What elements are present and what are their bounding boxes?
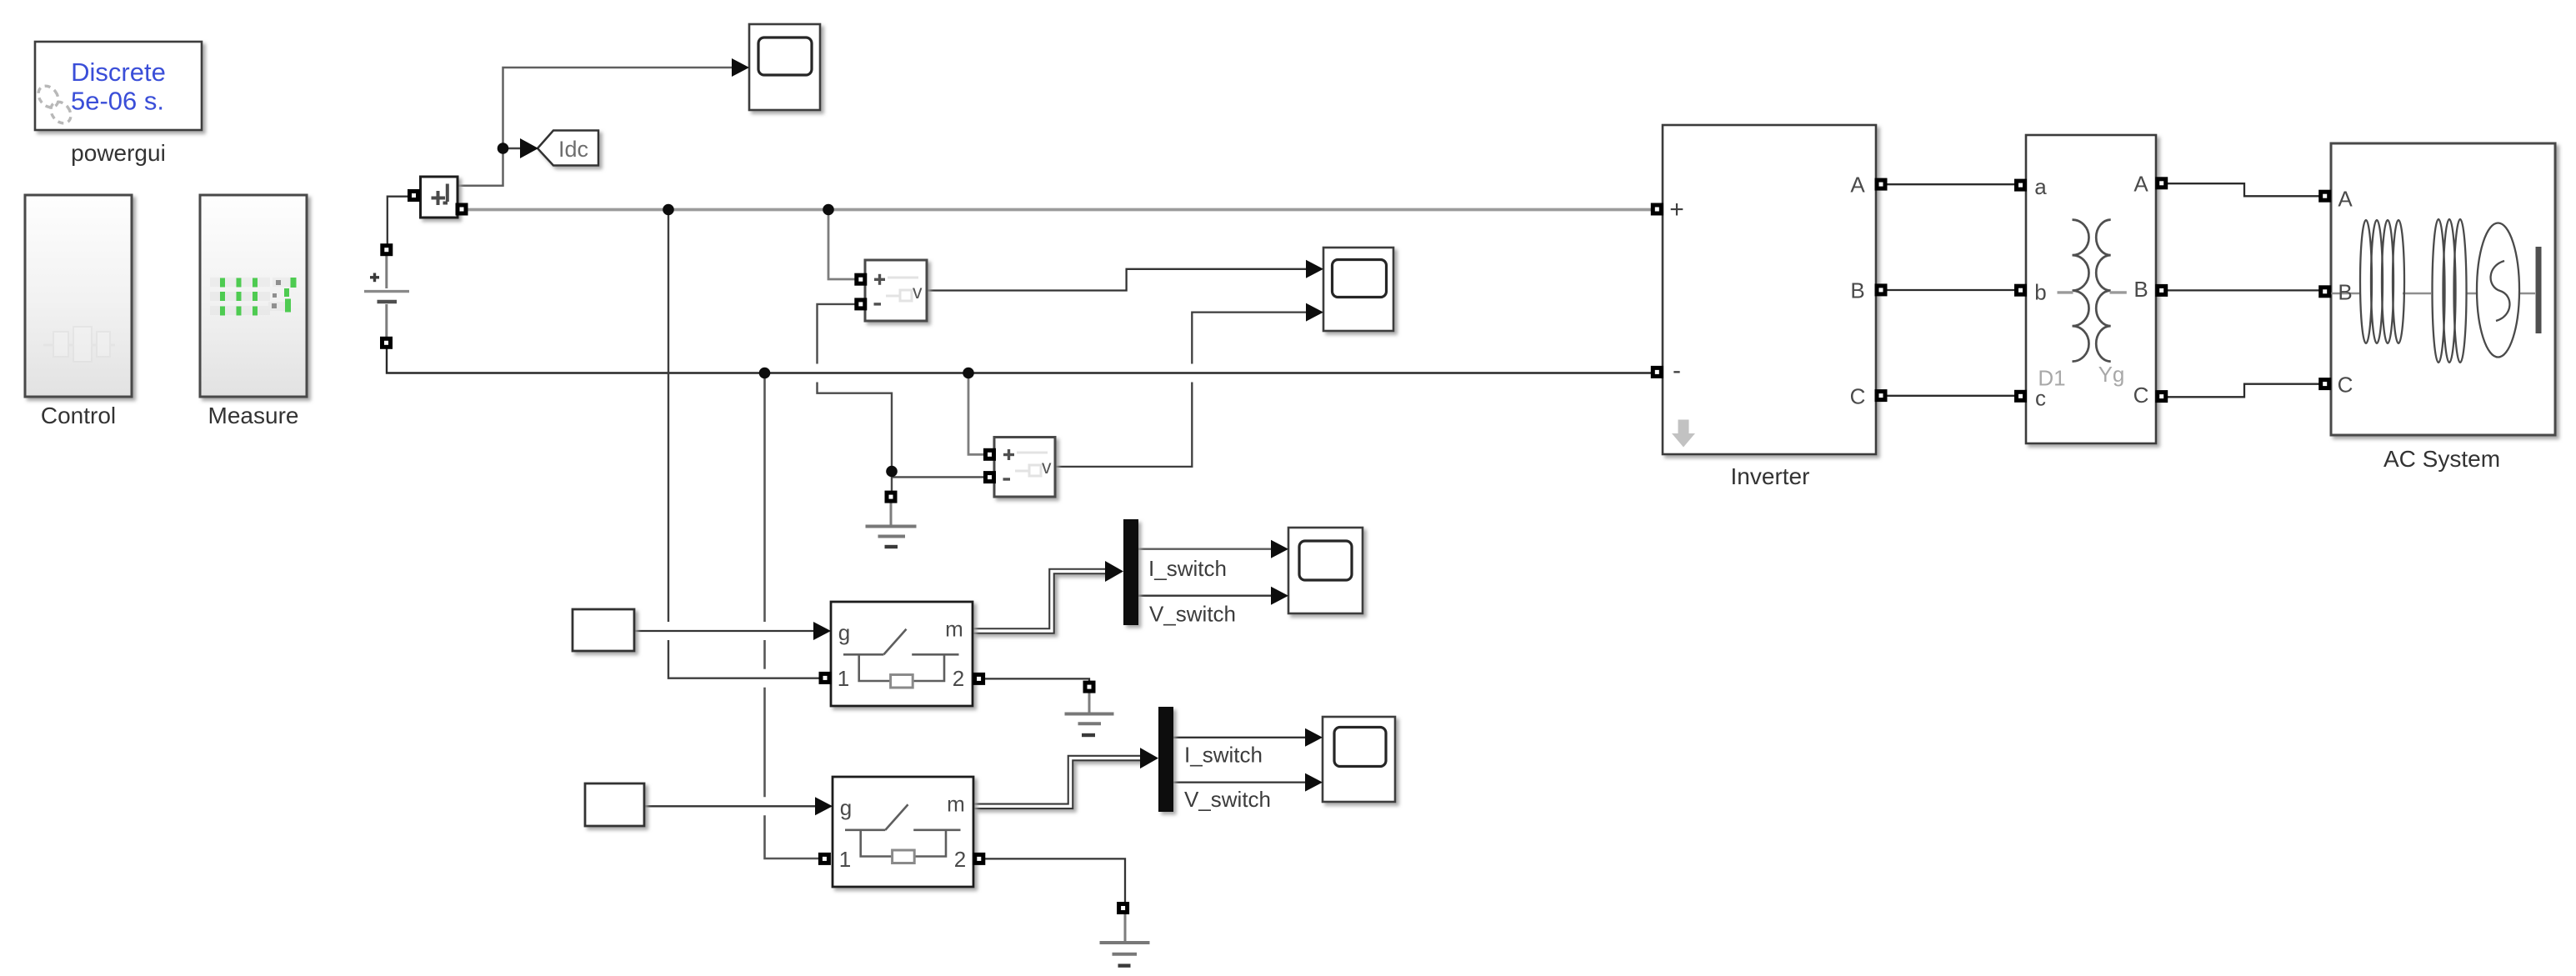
svg-text:C: C: [1850, 384, 1866, 409]
svg-text:I_switch: I_switch: [1184, 743, 1263, 768]
svg-text:b: b: [2034, 280, 2046, 305]
svg-text:Measure: Measure: [208, 403, 299, 428]
svg-text:A: A: [2133, 172, 2148, 197]
svg-text:v: v: [913, 281, 923, 303]
svg-text:2: 2: [954, 847, 966, 872]
svg-text:v: v: [1042, 456, 1052, 478]
svg-text:Yg: Yg: [2098, 362, 2125, 387]
svg-text:B: B: [2133, 277, 2148, 302]
svg-text:Idc: Idc: [558, 137, 588, 162]
svg-text:1: 1: [839, 847, 851, 872]
svg-text:B: B: [2338, 280, 2352, 305]
svg-text:5e-06 s.: 5e-06 s.: [71, 87, 164, 116]
svg-text:a: a: [2034, 174, 2047, 199]
svg-text:B: B: [1850, 278, 1864, 303]
svg-text:Discrete: Discrete: [71, 58, 166, 87]
svg-text:powergui: powergui: [71, 140, 166, 166]
svg-text:C: C: [2338, 373, 2353, 398]
svg-text:V_switch: V_switch: [1149, 602, 1236, 627]
svg-text:2: 2: [953, 666, 964, 691]
svg-text:Control: Control: [41, 403, 116, 428]
svg-text:V_switch: V_switch: [1184, 787, 1271, 812]
svg-text:-: -: [1673, 357, 1681, 384]
svg-text:AC System: AC System: [2383, 446, 2500, 472]
svg-text:A: A: [2338, 187, 2353, 212]
svg-text:Inverter: Inverter: [1731, 463, 1810, 489]
svg-text:C: C: [2133, 383, 2149, 408]
svg-text:D1: D1: [2038, 366, 2065, 391]
svg-text:1: 1: [838, 666, 849, 691]
svg-text:g: g: [838, 620, 850, 645]
svg-text:g: g: [840, 795, 852, 820]
svg-text:m: m: [945, 617, 963, 642]
svg-text:m: m: [947, 792, 965, 817]
svg-text:A: A: [1850, 173, 1865, 198]
svg-text:+: +: [1669, 196, 1684, 223]
svg-text:I_switch: I_switch: [1148, 556, 1227, 581]
